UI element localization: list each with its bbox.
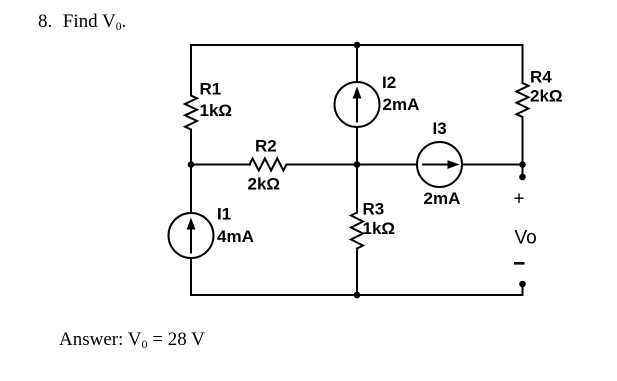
wire mid horizontal center [287, 164, 418, 166]
current source I1 arrow [190, 227, 192, 254]
svg-text:R3: R3 [363, 200, 385, 219]
wire right lower stub [522, 117, 524, 177]
svg-text:R4: R4 [530, 68, 552, 87]
svg-text:1kΩ: 1kΩ [363, 219, 396, 238]
wire bottom-right stub [522, 284, 524, 295]
wire left middle [190, 130, 192, 214]
svg-text:I1: I1 [217, 205, 231, 224]
node terminal plus [519, 174, 526, 181]
node terminal minus [519, 281, 526, 288]
node junction center [354, 161, 361, 168]
resistor R4 [517, 83, 529, 117]
svg-text:1kΩ: 1kΩ [200, 101, 233, 120]
current source I3 arrow [422, 164, 449, 166]
svg-text:2mA: 2mA [424, 189, 461, 208]
current source I1 [169, 213, 214, 258]
resistor R3 [351, 213, 363, 249]
wire mid horizontal left [191, 164, 250, 166]
wire top horizontal [191, 44, 523, 46]
resistor R2 [250, 159, 287, 171]
svg-text:I3: I3 [433, 119, 447, 138]
wire middle vertical lower [356, 249, 358, 296]
wire left upper [190, 45, 192, 96]
node junction right middle [519, 161, 526, 168]
svg-text:I2: I2 [382, 73, 396, 92]
wire right upper [522, 45, 524, 83]
answer text [59, 329, 205, 352]
node junction top middle [354, 42, 361, 49]
svg-text:R2: R2 [255, 136, 277, 155]
label Vo minus sign [514, 262, 525, 265]
current source I2 arrow [356, 96, 358, 123]
svg-text:2kΩ: 2kΩ [248, 174, 281, 193]
resistor R1 [185, 96, 197, 130]
wire left lower [190, 258, 192, 296]
node junction left middle [188, 161, 195, 168]
current source I2 [335, 82, 380, 127]
wire mid horizontal right [462, 164, 523, 166]
wire bottom horizontal [191, 294, 523, 296]
svg-text:4mA: 4mA [217, 227, 254, 246]
problem title text [38, 11, 126, 33]
svg-text:2mA: 2mA [383, 95, 420, 114]
wire middle vertical upper [356, 45, 358, 83]
current source I3 [417, 142, 462, 187]
svg-text:+: + [514, 189, 525, 210]
node junction bottom middle [354, 292, 361, 299]
svg-text:R1: R1 [200, 80, 222, 99]
wire middle vertical mid [356, 127, 358, 213]
svg-text:2kΩ: 2kΩ [530, 86, 563, 105]
svg-text:Vo: Vo [515, 228, 537, 249]
